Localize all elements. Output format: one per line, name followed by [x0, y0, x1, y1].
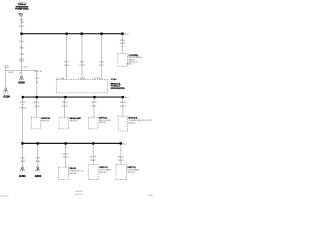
svg-text:SWITCH: SWITCH — [70, 120, 78, 122]
svg-text:M2 18: M2 18 — [34, 102, 40, 104]
svg-text:(8W-45): (8W-45) — [127, 172, 135, 174]
svg-text:18 PK: 18 PK — [64, 65, 70, 67]
svg-text:(8W-44): (8W-44) — [70, 173, 78, 175]
svg-text:PK/LG: PK/LG — [120, 106, 126, 108]
svg-text:G100: G100 — [3, 95, 10, 99]
svg-text:B(+): B(+) — [125, 34, 129, 36]
svg-text:PK/VT: PK/VT — [90, 160, 97, 162]
svg-text:Z904 18: Z904 18 — [34, 71, 42, 73]
svg-text:PK/YL: PK/YL — [91, 106, 98, 108]
svg-text:G300: G300 — [18, 81, 25, 85]
svg-text:M7 18: M7 18 — [90, 156, 96, 158]
svg-text:18 RD: 18 RD — [19, 47, 25, 49]
svg-text:C1 6 10A: C1 6 10A — [77, 77, 86, 80]
svg-text:(8W-44): (8W-44) — [99, 172, 107, 174]
svg-text:PK/GY: PK/GY — [118, 160, 125, 162]
svg-text:C1 4 15A: C1 4 15A — [56, 77, 65, 80]
svg-text:PK/DB: PK/DB — [33, 106, 40, 108]
svg-text:18 RD: 18 RD — [19, 26, 25, 28]
svg-text:(8W-52): (8W-52) — [99, 122, 107, 124]
svg-text:M3 18: M3 18 — [62, 102, 68, 104]
svg-text:18 PK: 18 PK — [120, 43, 126, 45]
svg-text:M1 18: M1 18 — [20, 102, 26, 104]
svg-text:PK/WT: PK/WT — [19, 108, 26, 110]
svg-text:18 BK: 18 BK — [20, 161, 26, 163]
svg-text:PK/OR: PK/OR — [61, 106, 68, 108]
svg-text:C1 B+: C1 B+ — [111, 79, 118, 81]
svg-text:054-2: 054-2 — [148, 195, 154, 197]
svg-text:18 BK: 18 BK — [35, 161, 41, 163]
svg-text:PK/TN: PK/TN — [63, 157, 69, 159]
svg-text:(8W-80): (8W-80) — [128, 122, 136, 124]
svg-text:M6 18: M6 18 — [63, 154, 69, 156]
svg-text:18 TN: 18 TN — [79, 65, 85, 67]
svg-text:M4 18: M4 18 — [91, 102, 97, 104]
svg-text:8W-54-2: 8W-54-2 — [1, 196, 10, 198]
svg-text:G301: G301 — [19, 174, 26, 178]
svg-text:8W-54-2: 8W-54-2 — [75, 194, 84, 196]
svg-text:M8 18: M8 18 — [118, 156, 124, 158]
svg-text:C1 8 20A: C1 8 20A — [93, 77, 102, 80]
svg-text:18 RD: 18 RD — [19, 61, 25, 63]
svg-text:G302: G302 — [35, 174, 42, 178]
svg-text:B(+): B(+) — [125, 97, 129, 99]
svg-text:M5 18: M5 18 — [120, 102, 126, 104]
svg-text:SWITCH: SWITCH — [41, 120, 49, 122]
svg-text:18 BK: 18 BK — [8, 72, 14, 74]
svg-text:INTEGRATED: INTEGRATED — [111, 87, 125, 90]
svg-text:B(+): B(+) — [122, 143, 126, 145]
svg-text:(EVIC): (EVIC) — [126, 64, 132, 66]
svg-text:POWER MODL: POWER MODL — [15, 9, 29, 11]
svg-text:18 YL: 18 YL — [99, 65, 105, 67]
